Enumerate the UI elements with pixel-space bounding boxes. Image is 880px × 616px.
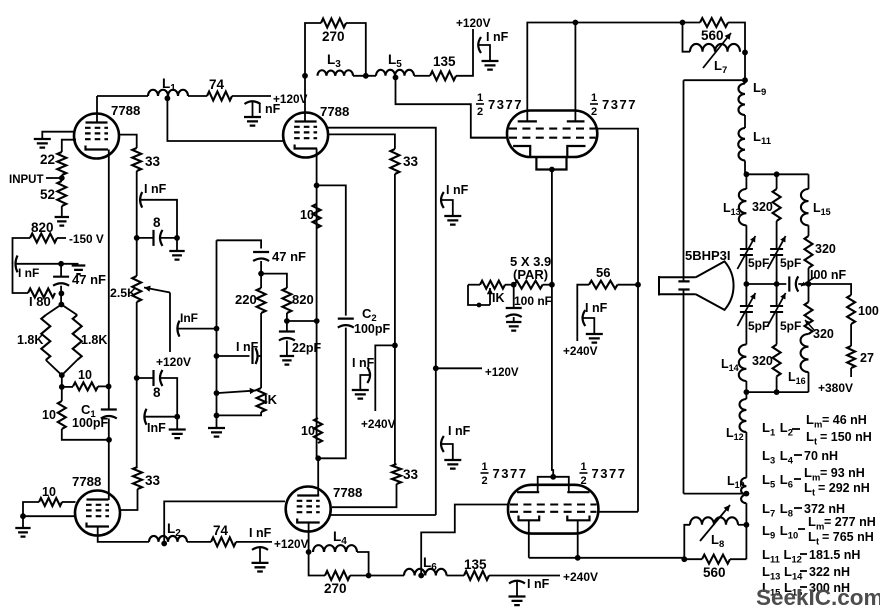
wire 220 down to 1K [260, 313, 262, 388]
node diamond bottom [59, 372, 65, 378]
wire 1nF to 8-cap node [141, 200, 178, 238]
wire 560 bottom leads [684, 558, 702, 560]
label 1/2 7377 (V7) [481, 461, 528, 487]
svg-text:= 292 nH: = 292 nH [818, 481, 870, 495]
svg-text:320: 320 [815, 242, 836, 256]
trimmer 5pF (lower-left) [740, 306, 753, 312]
wire 74 to +120V [236, 541, 272, 543]
svg-text:I nF: I nF [448, 424, 471, 438]
resistor 33 (V1 grid2) [132, 148, 141, 171]
svg-text:7788: 7788 [320, 104, 349, 119]
wire 135 to +120V [456, 29, 473, 76]
svg-text:I nF: I nF [258, 102, 281, 116]
wiper arrow 1K vertical [489, 288, 491, 305]
wire L9-L11 [744, 115, 746, 128]
label 1/2 7377 (V5) [476, 92, 523, 118]
svg-text:I nF: I nF [144, 182, 167, 196]
resistor 1.8K left [41, 315, 50, 360]
svg-text:220: 220 [235, 292, 257, 307]
cathode bar V8 [567, 516, 589, 521]
resistor 270 (bottom) [325, 571, 350, 580]
wire INPUT dash [46, 177, 62, 179]
svg-text:InF: InF [180, 311, 198, 325]
wire 10v leads [61, 387, 63, 401]
svg-text:10: 10 [42, 485, 56, 499]
CRT envelope (neck + horn) [659, 276, 696, 296]
ground below 8-cap [169, 251, 184, 260]
wire cathode bus (bottom) [529, 557, 685, 559]
wire cascode stem down [551, 170, 553, 286]
svg-text:7377: 7377 [592, 466, 627, 481]
node 56/grid rail [635, 282, 641, 288]
wire 820 left down [13, 238, 31, 264]
wire 320c lead [776, 376, 778, 392]
capacitor 1nF (input filter) [16, 256, 18, 273]
node top rung b [774, 171, 780, 177]
svg-text:I nF: I nF [352, 356, 375, 370]
wire 100nF stem [513, 285, 515, 308]
resistor 22 [57, 152, 66, 175]
wire 1nF to node [16, 263, 61, 265]
svg-text:IK: IK [492, 291, 505, 305]
wire V1 lower grid to 22 [62, 140, 76, 152]
wiper arrow 2.5K [144, 288, 170, 293]
wire chain 2.5K to node [136, 302, 138, 378]
capacitor 100nF (cathode) [506, 307, 522, 309]
svg-text:74: 74 [213, 523, 229, 538]
svg-text:7377: 7377 [488, 97, 523, 112]
svg-text:10: 10 [301, 424, 315, 438]
svg-text:I nF: I nF [486, 30, 509, 44]
resistor 320 (c) [773, 345, 781, 377]
node +240V tap [392, 343, 398, 349]
wire ladder mid rung [746, 283, 786, 285]
resistor 74 (bottom) [211, 537, 236, 546]
svg-text:+120V: +120V [485, 367, 519, 379]
wire V8 grid lead (right) [598, 511, 639, 513]
svg-text:+380V: +380V [818, 381, 853, 395]
wire 560 top loop [683, 22, 701, 24]
wire V4 second right lead [331, 514, 436, 516]
ground V3 [15, 528, 30, 537]
svg-text:560: 560 [701, 28, 724, 43]
wire 33 down chain [136, 171, 138, 276]
capacitor 1nF bypass at top-left +120V [245, 101, 261, 104]
svg-text:2: 2 [591, 106, 597, 118]
wire CRT tap lower [684, 493, 747, 495]
resistor 1K (pot) [257, 388, 266, 412]
wiper arrow 1K [217, 391, 257, 394]
wire 320b lead [808, 268, 810, 284]
capacitor 1nF bypass (bottom-left) [252, 547, 268, 550]
wire 1K left [468, 284, 480, 286]
resistor 10 vertical [58, 401, 66, 429]
svg-text:= 93 nH: = 93 nH [820, 466, 865, 480]
resistor 820 (bias) [282, 288, 291, 313]
resistor 320 (d) [808, 284, 810, 302]
node L4 left [306, 549, 312, 555]
node V8 cathode join [575, 555, 581, 561]
CRT deflection plates [678, 281, 689, 289]
node 1nF/47nF [58, 261, 64, 267]
capacitor 100nF (output) [788, 276, 790, 291]
wire L16 lead [808, 372, 810, 392]
svg-text:2: 2 [581, 475, 587, 487]
svg-text:I nF: I nF [236, 340, 259, 354]
node V4 plate junction [315, 455, 321, 461]
svg-text:270: 270 [322, 29, 345, 44]
capacitor 1nF bypass (56 feed) [583, 310, 586, 326]
node 1K bottom [214, 413, 220, 419]
wire node to ground [176, 238, 178, 251]
wire L6 to 135 [447, 575, 465, 577]
svg-text:I00 nF: I00 nF [810, 268, 846, 282]
wire 33 to V3 right lead [120, 489, 138, 510]
svg-text:= 46 nH: = 46 nH [822, 413, 867, 427]
node L3 left [302, 73, 308, 79]
wire chain node to 33 lower [136, 378, 138, 467]
resistor 1.8K right [73, 315, 82, 360]
wire L1 tap down to V2 grid line [167, 98, 284, 141]
svg-text:135: 135 [464, 557, 487, 572]
wire coupling cap [217, 355, 250, 357]
capacitor 1nF bypass (rail lower) [441, 436, 444, 452]
capacitor 1nF (lower chain) [144, 409, 146, 425]
capacitor 47nF (vertical) [53, 276, 69, 278]
inductor L12 [740, 399, 747, 432]
node mid rung c [806, 281, 812, 287]
inductor L14 [739, 345, 747, 382]
node 8-cap right [174, 235, 180, 241]
resistor 27 [847, 346, 855, 368]
inductor L2 [149, 536, 187, 542]
resistor 820 (-150V feed) [30, 234, 57, 243]
wire L11 to ladder top [744, 161, 746, 175]
vacuum tube V1 7788 (top-left) [74, 114, 119, 159]
wire L12 to L10 [745, 432, 747, 478]
label 1/2 7377 (V6) [590, 92, 637, 118]
svg-text:5pF: 5pF [748, 256, 769, 270]
node diamond top [59, 302, 65, 308]
wire 47nF to 180 node [60, 286, 62, 305]
wire V1 plate lead up [96, 96, 98, 123]
resistor 33 (V3 grid2) [133, 467, 142, 489]
wire 1nF to node [145, 416, 177, 418]
svg-text:I nF: I nF [249, 526, 272, 540]
svg-text:(PAR): (PAR) [513, 267, 548, 282]
wire node to 820 top [261, 274, 287, 288]
svg-text:22: 22 [40, 152, 55, 167]
wire V6 grid lead / grid rail [597, 129, 639, 512]
wire diamond node down [61, 375, 63, 387]
potentiometer 2.5K [132, 276, 141, 302]
svg-text:SeekIC.com: SeekIC.com [756, 585, 880, 610]
svg-text:33: 33 [403, 467, 419, 482]
wire 180 left up to 820 [13, 262, 29, 293]
svg-text:100: 100 [858, 304, 879, 318]
svg-text:= 277 nH: = 277 nH [824, 515, 876, 529]
inductor L7 (variable) [690, 44, 740, 52]
wire 100-27 [850, 324, 852, 346]
capacitor C2 100pF [338, 318, 354, 320]
plate bar V8 [567, 491, 589, 493]
svg-text:74: 74 [209, 77, 225, 92]
capacitor 1nF bypass (mid stub) [367, 367, 370, 383]
wire V1 grid to ground [42, 132, 75, 139]
wire V5 grid lead (left) [471, 137, 508, 139]
ground at V1 grid [34, 139, 51, 148]
inductor L5 [376, 70, 414, 76]
wire cascode stem to V7 plate bus [552, 285, 553, 477]
wire V2 mid-right lead [328, 134, 395, 149]
wire V5 plate lead up [527, 23, 575, 122]
svg-text:10: 10 [78, 368, 92, 382]
wire deflection line upper [683, 80, 685, 281]
capacitor 8 (lower) [152, 370, 154, 386]
node 180/47nF [59, 291, 65, 297]
svg-text:1: 1 [482, 461, 488, 473]
svg-text:320: 320 [813, 327, 834, 341]
wire rail to 33 lower [394, 345, 396, 464]
wire V3 cathode down [98, 527, 149, 542]
node mid rung a [744, 281, 750, 287]
wire V2 top-right lead to +120 rail [327, 128, 436, 515]
inductor L6 [404, 569, 447, 576]
inductor L16 [801, 334, 809, 372]
capacitor 1nF bypass (rail upper) [441, 192, 444, 208]
inductor L10 [741, 478, 746, 504]
svg-text:= 765 nH: = 765 nH [822, 530, 874, 544]
resistor 320 (b) [805, 236, 813, 268]
wire 100nF to ground [513, 317, 515, 322]
vacuum tube V7/V8 envelope 7377 (bottom pair) [508, 485, 598, 534]
inductor L8 (variable) [690, 517, 738, 525]
arrow L7 [703, 33, 731, 68]
svg-text:INPUT: INPUT [9, 174, 44, 186]
wire 22 to input node [61, 175, 63, 181]
svg-text:33: 33 [145, 154, 161, 169]
svg-text:IK: IK [264, 392, 278, 407]
wire node down to 47nF [60, 264, 62, 276]
wire 270 loop bottom [309, 552, 325, 576]
node plate bus stem [550, 474, 556, 480]
node top rung a [744, 171, 750, 177]
node cathode tab [549, 167, 555, 173]
wire 27 to +380V [850, 368, 852, 377]
ground small right of node [72, 266, 86, 275]
wire L7 left drop [683, 23, 691, 52]
capacitor 1nF (coupling to 220/1K) [251, 348, 253, 364]
node 8-cap left [134, 235, 140, 241]
ground below lower 1nF [169, 430, 186, 439]
wire V4 plate lead up [317, 458, 319, 495]
resistor 560 (top) [700, 18, 728, 27]
node 10v bottom on cathode line [106, 437, 112, 443]
svg-text:+120V: +120V [274, 537, 309, 551]
node L8/560 right [744, 522, 750, 528]
wire wiper cap to rail [178, 328, 217, 330]
inductor L13 [739, 189, 747, 225]
node L6 tap [418, 573, 424, 579]
wire V1 right lead [118, 135, 137, 148]
svg-text:I 80: I 80 [29, 294, 51, 309]
svg-text:1.8K: 1.8K [17, 333, 43, 347]
junction node under L1 [165, 95, 171, 101]
resistor 180 [28, 289, 55, 298]
wire 270 to node [350, 575, 369, 577]
wire L2 tap up to V4 grid line [164, 501, 285, 543]
svg-text:100pF: 100pF [354, 322, 390, 336]
wire L6 tap riser to 7377 grid [421, 505, 508, 576]
resistor 56 [589, 281, 618, 289]
svg-text:70 nH: 70 nH [804, 449, 838, 463]
resistor 320 (a) [773, 189, 781, 221]
cathode tab (top pair) [536, 157, 566, 170]
resistor 270 (top) [321, 19, 346, 28]
inductor L4 [313, 545, 357, 552]
resistor 10 (V2 cathode upper) [313, 204, 321, 228]
wire 270 loop [305, 23, 321, 76]
vacuum tube V2 7788 [283, 113, 328, 158]
grid row1 V5/V6 [509, 128, 596, 130]
svg-text:100pF: 100pF [72, 416, 108, 430]
vacuum tube V4 7788 [286, 487, 331, 532]
wire V8 cathode lead [577, 520, 579, 558]
ground bias network [208, 428, 225, 437]
svg-text:33: 33 [403, 154, 419, 169]
wire 33 to V4 right lead [332, 484, 397, 507]
svg-text:320: 320 [752, 200, 773, 214]
svg-text:820: 820 [31, 220, 54, 235]
grid row1 V7/V8 [510, 503, 597, 505]
node INPUT [59, 175, 65, 181]
wire 52 to ground [61, 206, 63, 217]
wire V6 plate lead up [574, 23, 576, 122]
wire L4 right corner [357, 552, 369, 576]
svg-text:2: 2 [477, 106, 483, 118]
svg-text:= 150 nH: = 150 nH [820, 430, 872, 444]
wire 10h leads [62, 386, 73, 388]
svg-text:+120V: +120V [456, 16, 491, 30]
node bottom rung a [744, 389, 750, 395]
wire plate bus (bottom pair) [538, 477, 569, 492]
wire diamond bottom join [46, 360, 77, 375]
resistor 560 (bottom) [702, 555, 730, 564]
capacitor 1nF tap (chain) [140, 192, 142, 208]
resistor 10 (V2 cathode lower) [314, 418, 322, 443]
trimmer 5pF (upper-left) [740, 249, 753, 255]
wire deflection line lower [683, 290, 685, 494]
wire plate bus to 560 loop [575, 22, 682, 24]
wire 8 leads [137, 237, 154, 239]
inductor L1 [148, 90, 188, 96]
svg-text:2.5K: 2.5K [110, 286, 136, 300]
wire L14 lead [745, 381, 747, 392]
node 8-cap lower left [134, 375, 140, 381]
svg-text:8: 8 [153, 385, 161, 400]
wire ladder bottom rung [746, 391, 808, 393]
wire L3 to L5 [353, 75, 376, 77]
wire node to small ground [61, 263, 78, 265]
wire L5 tap to 7377 grid [396, 78, 509, 138]
capacitor 22pF [279, 330, 295, 332]
wire 56 left to +240V drop [577, 285, 589, 341]
wire 1K to node [505, 284, 514, 286]
wire 320a leads [776, 174, 778, 189]
svg-text:I nF: I nF [527, 577, 550, 591]
resistor 33 (V2) [390, 149, 399, 174]
wire CRT tap left [684, 79, 746, 81]
svg-text:InF: InF [147, 421, 166, 435]
node L2 tap [161, 541, 167, 547]
capacitor C1 100pF [101, 408, 117, 410]
grid row2 V7/V8 [510, 511, 597, 513]
vacuum tube V5/V6 envelope 7377 (top pair) [507, 111, 597, 158]
cathode bar V5 [513, 146, 530, 157]
wire cathode node jog to C2 [317, 185, 346, 315]
wire +120V stub right [436, 367, 482, 369]
svg-text:33: 33 [145, 473, 161, 488]
wire V1 cathode line down to V3 plate [108, 150, 110, 410]
node bottom rung b [774, 389, 780, 395]
resistor 74 (top) [207, 92, 232, 101]
svg-text:I nF: I nF [585, 301, 608, 315]
capacitor 1nF bypass (top feed) [478, 37, 481, 53]
arrow L8 [700, 505, 730, 541]
plate bar V5 [518, 120, 537, 122]
wire V2 cathode lead down [316, 149, 318, 459]
svg-text:10: 10 [300, 208, 314, 222]
svg-text:5pF: 5pF [748, 319, 769, 333]
node 560 bottom left [681, 556, 687, 562]
wire 3.9 to cascode node [543, 284, 552, 286]
node 10 resistors [59, 384, 65, 390]
wire L8 right [738, 524, 746, 526]
capacitor 47nF (bias) [253, 251, 269, 253]
resistor 10 horizontal [73, 382, 98, 390]
wire L8 left [684, 525, 690, 559]
inductor L9 [738, 84, 745, 116]
node L7/560 right [742, 50, 748, 56]
trimmer 5pF (lower-right) [770, 306, 783, 312]
svg-text:100 nF: 100 nF [514, 294, 552, 308]
wire plate line to L1 [97, 95, 148, 97]
wire 74 to +120V [232, 95, 271, 97]
wire 56 right to grid rail [618, 284, 639, 286]
svg-text:270: 270 [324, 581, 347, 596]
wire to L12 [745, 392, 747, 399]
resistor 10 (V3 grid) [39, 498, 62, 506]
inductor L11 [738, 128, 745, 161]
node 820 bottom [284, 318, 290, 324]
svg-text:10: 10 [42, 408, 56, 422]
ground below 22pF [280, 356, 294, 365]
node 560/L7 left [680, 20, 686, 26]
wire node to L6 [369, 575, 404, 577]
ground below 52 [55, 217, 69, 226]
resistor 1K (CRT pot) [480, 281, 505, 289]
svg-text:560: 560 [703, 565, 726, 580]
resistor 5x3.9 PAR [515, 281, 543, 289]
wire +240V stub [375, 345, 395, 411]
cathode bar V6 [567, 146, 585, 157]
wire 33 down +240 rail [394, 174, 396, 345]
svg-text:I nF: I nF [18, 266, 39, 280]
wire 135 to +240V [489, 575, 560, 577]
wire V2 plate lead [304, 76, 306, 122]
wire 820 to node [286, 313, 288, 331]
node L4/270 right [366, 573, 372, 579]
